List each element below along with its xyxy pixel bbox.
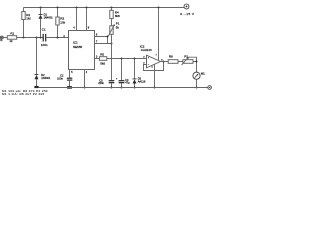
preset P1 — [111, 19, 113, 26]
input terminal — [0, 36, 3, 39]
wire meter to ground rail — [196, 79, 198, 87]
wiper wire P2 — [188, 57, 196, 61]
svg-text:5k: 5k — [116, 26, 120, 30]
diode D3 — [134, 59, 136, 79]
IC2 ground pin wire — [154, 64, 156, 87]
resistor R4 — [111, 7, 113, 9]
svg-text:R6: R6 — [169, 55, 173, 59]
svg-text:IC1: IC1 — [73, 41, 78, 45]
capacitor C4 — [121, 59, 123, 81]
rail left corner blob — [34, 86, 38, 88]
svg-text:1N4001: 1N4001 — [44, 15, 54, 19]
svg-text:100n: 100n — [57, 77, 63, 81]
pin 3 wire — [95, 58, 100, 60]
node D3 junction — [134, 58, 136, 60]
meter M1 — [193, 72, 200, 79]
svg-text:NE555: NE555 — [73, 45, 83, 49]
svg-text:AA119: AA119 — [138, 80, 146, 84]
node D1 junction — [40, 37, 42, 39]
svg-text:M1: M1 — [201, 71, 205, 75]
ground terminal — [208, 86, 212, 90]
node R3 junction — [57, 37, 59, 39]
feedback wire — [144, 62, 164, 71]
wire terminal to R1 — [3, 37, 7, 39]
wire R2 top — [23, 8, 25, 12]
supply terminal — [184, 4, 189, 9]
diode D1 — [40, 7, 42, 9]
svg-text:C1: C1 — [42, 28, 46, 32]
svg-text:1N4001: 1N4001 — [41, 76, 51, 80]
svg-text:R1: R1 — [10, 31, 14, 35]
svg-text:R5: R5 — [100, 53, 104, 57]
wire C1 to pin2 — [46, 37, 68, 39]
bottom ground rail — [37, 87, 209, 89]
svg-text:6...15 V: 6...15 V — [180, 12, 195, 16]
top supply rail — [24, 7, 185, 9]
op-amp output wire — [161, 61, 169, 63]
pin 7 wire — [95, 43, 112, 45]
svg-text:6k8: 6k8 — [115, 14, 120, 18]
wire R5 to op-amp — [107, 58, 147, 60]
preset P2 — [183, 60, 193, 64]
capacitor C2 — [67, 78, 72, 79]
wire R6 to P2 — [178, 61, 183, 63]
resistor R1 — [7, 36, 16, 40]
pin 4 wire — [76, 7, 78, 9]
wire R1 to C1 — [17, 37, 43, 39]
diode D2 — [36, 38, 38, 75]
pin 1 wire — [84, 70, 86, 88]
resistor R6 — [168, 60, 178, 64]
svg-text:47µ: 47µ — [125, 81, 130, 85]
svg-text:P2: P2 — [184, 55, 188, 59]
svg-text:100n: 100n — [41, 43, 48, 47]
pin 8 wire — [86, 7, 88, 9]
svg-text:220n: 220n — [98, 81, 104, 85]
node R2 junction — [23, 37, 25, 39]
capacitor C1 — [43, 34, 44, 42]
capacitor C3 — [109, 80, 115, 81]
pin 6 wire — [95, 37, 108, 44]
resistor R5 — [99, 57, 106, 61]
node D2 junction — [36, 37, 38, 39]
IC2 supply pin wire — [158, 7, 160, 9]
resistor R3 — [57, 7, 59, 9]
svg-text:CA3140: CA3140 — [141, 48, 152, 52]
node C4 junction — [121, 58, 123, 60]
wire P2 to meter — [193, 62, 197, 73]
resistor R2 — [22, 12, 25, 20]
pin 5 wire — [69, 70, 71, 78]
svg-text:10k: 10k — [60, 21, 65, 25]
svg-text:M1 1 mA: R6 2k7 P2 2k5: M1 1 mA: R6 2k7 P2 2k5 — [2, 92, 45, 96]
timer IC1 NE555 box — [69, 31, 95, 70]
svg-text:1M: 1M — [26, 16, 31, 20]
svg-text:5k6: 5k6 — [100, 61, 105, 65]
svg-text:1k: 1k — [9, 39, 13, 43]
